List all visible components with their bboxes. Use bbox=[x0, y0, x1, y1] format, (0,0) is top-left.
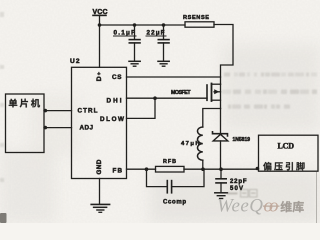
label L1 value 47uH bbox=[181, 141, 200, 147]
node C1 junction bbox=[133, 23, 137, 27]
wire CTRL from MCU bbox=[44, 110, 72, 112]
node CTRL junction bbox=[44, 109, 48, 113]
ground C1 bbox=[129, 61, 140, 66]
wire DHI to gate bbox=[127, 97, 208, 99]
wire RSENSE to MOSFET drain bbox=[214, 25, 233, 85]
wire (corner smudge) bbox=[0, 213, 7, 223]
label Ccomp bbox=[163, 200, 186, 206]
resistor RFB bbox=[156, 166, 185, 172]
wire VCC down to U2 V+ pin bbox=[99, 15, 101, 67]
capacitor Ccomp bbox=[147, 169, 205, 193]
ground C2 bbox=[158, 61, 169, 66]
node FB junction bbox=[145, 167, 149, 171]
ground C3 bbox=[215, 193, 228, 199]
label LCD bbox=[278, 142, 295, 151]
wire (page edge artifact) bbox=[316, 172, 318, 223]
node ADJ junction bbox=[44, 126, 48, 130]
pin CTRL label bbox=[78, 108, 98, 115]
inductor L1 47uH bbox=[198, 127, 203, 160]
node inductor junction bbox=[201, 167, 205, 171]
node VCC junction bbox=[98, 23, 102, 27]
wire VCC rail to RSENSE bbox=[100, 24, 186, 26]
label U2 bbox=[70, 58, 80, 65]
pin FB label bbox=[113, 167, 123, 174]
wire (ghost scan marks) bbox=[0, 12, 317, 197]
capacitor C1 0.1uF bbox=[129, 25, 140, 61]
capacitor C3 22pF 50V bbox=[216, 169, 226, 192]
watermark wei-ku bbox=[280, 201, 303, 212]
wire DLOW to gate bbox=[127, 98, 156, 118]
wire output rail to LCD bbox=[184, 168, 259, 170]
wire source node to inductor bbox=[203, 109, 221, 128]
wire CS to sense node bbox=[127, 76, 221, 78]
pin DLOW label bbox=[100, 116, 124, 123]
wire inductor to output rail bbox=[202, 160, 204, 169]
label C2 value 22uF bbox=[146, 30, 166, 37]
label MOSFET bbox=[171, 90, 191, 96]
node C2 junction bbox=[162, 23, 166, 27]
label D1 1N5819 bbox=[233, 137, 251, 143]
node LCD junction bbox=[256, 167, 260, 171]
MCU label text dan-pian-ji bbox=[9, 99, 40, 108]
wire GND pin down bbox=[99, 179, 101, 205]
wire ADJ from MCU bbox=[44, 127, 72, 129]
watermark WeeQoo bbox=[217, 195, 280, 216]
ground U2 bbox=[91, 204, 109, 212]
pin CS label bbox=[112, 74, 122, 81]
pin ADJ label bbox=[80, 124, 94, 131]
wire FB pin to RFB bbox=[127, 168, 156, 170]
node diode junction bbox=[219, 167, 223, 171]
label RSENSE bbox=[183, 15, 209, 21]
power VCC bbox=[93, 9, 108, 16]
label C3 value 22pF 50V bbox=[230, 179, 247, 192]
resistor RSENSE bbox=[185, 22, 214, 27]
transistor Q1 MOSFET bbox=[207, 84, 221, 109]
MCU box (dan pian ji) bbox=[6, 94, 45, 153]
pin DHI label bbox=[107, 98, 122, 105]
capacitor C2 22uF bbox=[158, 25, 169, 61]
IC U2 controller box bbox=[72, 67, 127, 178]
node gate junction bbox=[153, 96, 157, 100]
LCD box bbox=[259, 135, 319, 171]
label C1 value 0.1uF bbox=[114, 30, 137, 37]
LCD bias pin label pian-ya-yin-jiao bbox=[263, 162, 304, 170]
label RFB bbox=[163, 159, 176, 165]
pin GND label bbox=[96, 159, 103, 174]
pin V+ symbol bbox=[96, 71, 103, 81]
diode D1 1N5819 schottky bbox=[213, 109, 228, 170]
